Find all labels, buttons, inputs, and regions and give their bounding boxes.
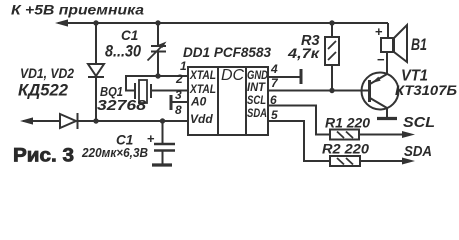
node junction top rail / R3 (329, 20, 334, 25)
node SCL output arrow (402, 131, 415, 138)
crystal BQ1 (135, 80, 151, 103)
svg-text:VD1, VD2: VD1, VD2 (20, 66, 74, 81)
ground common bar pin3 (170, 95, 173, 110)
svg-text:Vdd: Vdd (190, 112, 213, 126)
speaker B1 (381, 25, 407, 62)
resistor R2 (330, 156, 360, 166)
wire speaker to emitter (386, 52, 388, 74)
svg-text:VT1: VT1 (401, 68, 428, 85)
resistor R1 (330, 130, 359, 140)
IC DD1 PCF8583 body (188, 67, 268, 135)
wire speaker top lead (387, 23, 389, 38)
wire R1 to SCL arrow (359, 134, 404, 136)
svg-text:220мк×6,3В: 220мк×6,3В (81, 146, 148, 160)
svg-text:4: 4 (270, 62, 278, 76)
wire trimmer bottom lead (157, 52, 159, 77)
node junction R3 / INT wire (329, 88, 334, 93)
svg-text:8...30: 8...30 (105, 42, 141, 61)
svg-text:КТ3107Б: КТ3107Б (395, 83, 457, 98)
transistor VT1 (362, 73, 399, 110)
wire R3 bottom lead (331, 65, 333, 91)
ground common bar C1 (152, 163, 172, 166)
wire top +5V rail (58, 22, 388, 24)
wire pin6 SCL to R1 (268, 106, 330, 135)
svg-text:КД522: КД522 (18, 82, 68, 100)
ground common bar VT1 (377, 117, 397, 120)
svg-text:SCL: SCL (247, 95, 266, 107)
node XTAL1 junction (155, 73, 160, 78)
node SDA output arrow (402, 158, 415, 165)
node junction top rail / VD1 (93, 20, 98, 25)
svg-text:8: 8 (175, 103, 182, 117)
svg-text:XTAL: XTAL (189, 68, 216, 82)
svg-text:+: + (147, 131, 155, 146)
resistor R3 (325, 37, 339, 65)
diode VD2 (60, 113, 78, 129)
svg-text:5: 5 (271, 108, 278, 122)
svg-text:В1: В1 (411, 35, 427, 54)
svg-text:R2 220: R2 220 (322, 142, 370, 157)
svg-text:К +5В приемника: К +5В приемника (11, 2, 144, 18)
svg-text:7: 7 (271, 76, 279, 90)
svg-text:4,7к: 4,7к (287, 45, 320, 61)
svg-text:1: 1 (180, 59, 187, 73)
svg-text:2: 2 (175, 72, 183, 86)
ground common bar pin4 (300, 69, 303, 84)
node junction C1 / bottom rail (160, 118, 165, 123)
wire R2 to SDA arrow (360, 160, 404, 162)
capacitor C1 trimmer (148, 42, 167, 61)
svg-text:SCL: SCL (403, 114, 435, 131)
wire collector lead (386, 108, 388, 117)
wire pin4 GND stub (268, 76, 300, 78)
svg-text:GND: GND (247, 70, 268, 82)
svg-text:6: 6 (270, 93, 277, 107)
wire pin2 XTAL (151, 90, 188, 92)
wire trimmer top lead (157, 23, 159, 45)
wire VD1 top lead (95, 23, 97, 64)
wire R3 top lead (331, 23, 333, 37)
node junction VD1 / bottom rail (93, 118, 98, 123)
svg-text:−: − (377, 52, 385, 67)
svg-text:SDA: SDA (404, 143, 432, 160)
wire pin1 XTAL (158, 75, 188, 77)
svg-text:32768: 32768 (97, 98, 147, 114)
wire pin3 A0 stub (171, 101, 188, 103)
svg-text:3: 3 (175, 88, 182, 102)
node bottom-rail arrow (20, 117, 33, 124)
capacitor C1 electrolytic (154, 121, 175, 164)
svg-text:DC: DC (221, 67, 245, 84)
wire VD1 bottom lead (95, 77, 97, 121)
diode VD1 (88, 64, 104, 77)
wire crystal link (126, 76, 158, 91)
svg-text:DD1 PCF8583: DD1 PCF8583 (183, 45, 271, 60)
svg-text:+: + (375, 24, 383, 39)
wire pin7 INT to base (268, 90, 369, 92)
wire bottom rail right (78, 120, 189, 122)
node top-rail arrow (55, 19, 68, 26)
svg-text:BQ1: BQ1 (100, 84, 123, 99)
node junction top rail / C1 trimmer (155, 20, 160, 25)
svg-text:R1 220: R1 220 (325, 116, 370, 131)
svg-text:SDA: SDA (247, 108, 267, 120)
wire bottom rail left (23, 120, 60, 122)
wire pin5 SDA to R2 (268, 121, 330, 161)
svg-text:INT: INT (247, 82, 266, 94)
svg-text:Рис. 3: Рис. 3 (13, 146, 74, 167)
svg-text:A0: A0 (190, 95, 207, 109)
